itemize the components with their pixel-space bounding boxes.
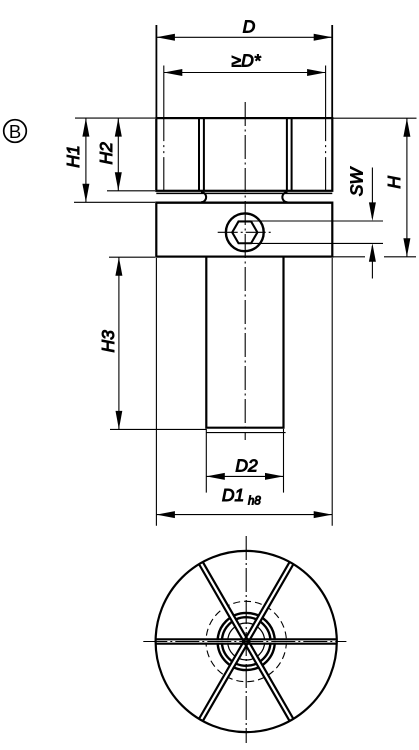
svg-text:D2: D2 [235,456,258,476]
svg-text:h8: h8 [248,496,261,508]
spoke 60deg line a [199,562,289,718]
set screw bore circle [226,213,264,251]
spoke horizontal line b [156,643,336,645]
bottom view outer circle [156,551,337,732]
head slot line 3 [286,118,288,191]
dimension D extension right [331,25,333,117]
dimension H2 arrow top [115,118,122,137]
svg-text:D1: D1 [222,485,244,505]
svg-text:≥D*: ≥D* [231,51,261,71]
dimension H arrow bottom [403,238,410,256]
bottom view horizontal centerline [143,641,346,643]
bottom view circle outer2 [218,613,275,670]
spoke slot white channel horizontal [157,640,335,643]
dimension D* extension left [163,66,165,118]
bottom view vertical centerline [245,536,247,743]
dimension H3 arrow top [115,257,122,276]
dimension D1 arrow right [314,511,333,518]
neck slot notch left [201,192,206,202]
svg-text:H1: H1 [63,145,83,167]
dimension D* line [164,72,326,74]
spoke 120deg line b [203,562,293,718]
neck collar top edge [156,202,332,204]
dimension D1 extension right [331,258,333,526]
set screw hex socket [232,221,257,243]
dimension D2 arrow right [265,473,284,480]
dimension D* extension right [325,66,327,118]
head slot centerline left [163,118,165,191]
svg-text:H2: H2 [96,142,116,165]
set screw horizontal centerline [218,231,273,233]
dimension H line [406,118,408,257]
dimension H2 line [117,118,119,191]
dimension D1 extension left [155,258,157,526]
dimension H extension top [333,117,417,119]
dimension D arrow right [314,34,333,41]
spoke 60deg line b [203,565,293,721]
svg-text:D: D [243,17,256,37]
shank outline [206,257,283,428]
head slot centerline right [325,118,327,191]
svg-text:H: H [384,176,404,189]
head slot line 1 [198,118,200,191]
dimension D1 arrow left [156,511,175,518]
dimension SW shaft top with arrow [371,168,373,219]
hex flat leader top [252,220,383,222]
bottom view circle middle [222,617,271,666]
neck slot notch right [282,192,287,202]
dimension H3 line [118,257,120,429]
dimension D2 arrow left [206,473,225,480]
spoke 120deg line a [199,565,289,721]
dimension SW shaft bottom with arrow [371,246,373,279]
dimension H1 line [85,118,87,202]
dimension H3 extension bottom [110,428,206,430]
dimension D2 line [206,475,283,477]
dimension H extension bottom [332,256,365,258]
dimension H3 extension top [109,256,155,258]
dimension D* arrow right [307,69,326,76]
dimension H2 extension bottom [107,190,155,192]
spoke slot white channel 120deg [202,564,291,718]
head slot line 2 [203,118,205,191]
dimension D* arrow left [164,69,183,76]
svg-text:SW: SW [346,167,366,197]
bottom view bore circle thin [228,623,265,660]
dimension D arrow left [156,34,175,41]
dimension H2 arrow bottom [115,172,122,191]
dimension H1 arrow bottom [82,184,89,203]
dimension H arrow top [403,118,410,137]
dimension H3 arrow bottom [116,411,123,430]
head outline [156,118,332,191]
shank end thin line [206,432,285,434]
svg-text:H3: H3 [98,330,118,353]
dimension H1 extension top [75,117,155,119]
dimension D1 line [156,514,332,516]
dimension H1 extension bottom [74,201,155,203]
centerline main vertical front view [244,102,246,440]
svg-text:B: B [9,121,21,142]
spoke horizontal line a [156,638,336,640]
dimension H1 arrow top [82,118,89,137]
collar outline [156,203,332,257]
spoke slot white channel 60deg [202,564,291,718]
dimension D2 extension left [205,429,207,493]
neck ledge line [156,192,332,194]
dimension D extension left [155,25,157,117]
head slot line 4 [291,118,293,191]
dimension D line [156,36,332,38]
hex flat leader bottom [252,242,383,244]
bottom view dashed circle [206,601,286,681]
view label B circle [4,120,27,143]
dimension D2 extension right [283,429,285,493]
